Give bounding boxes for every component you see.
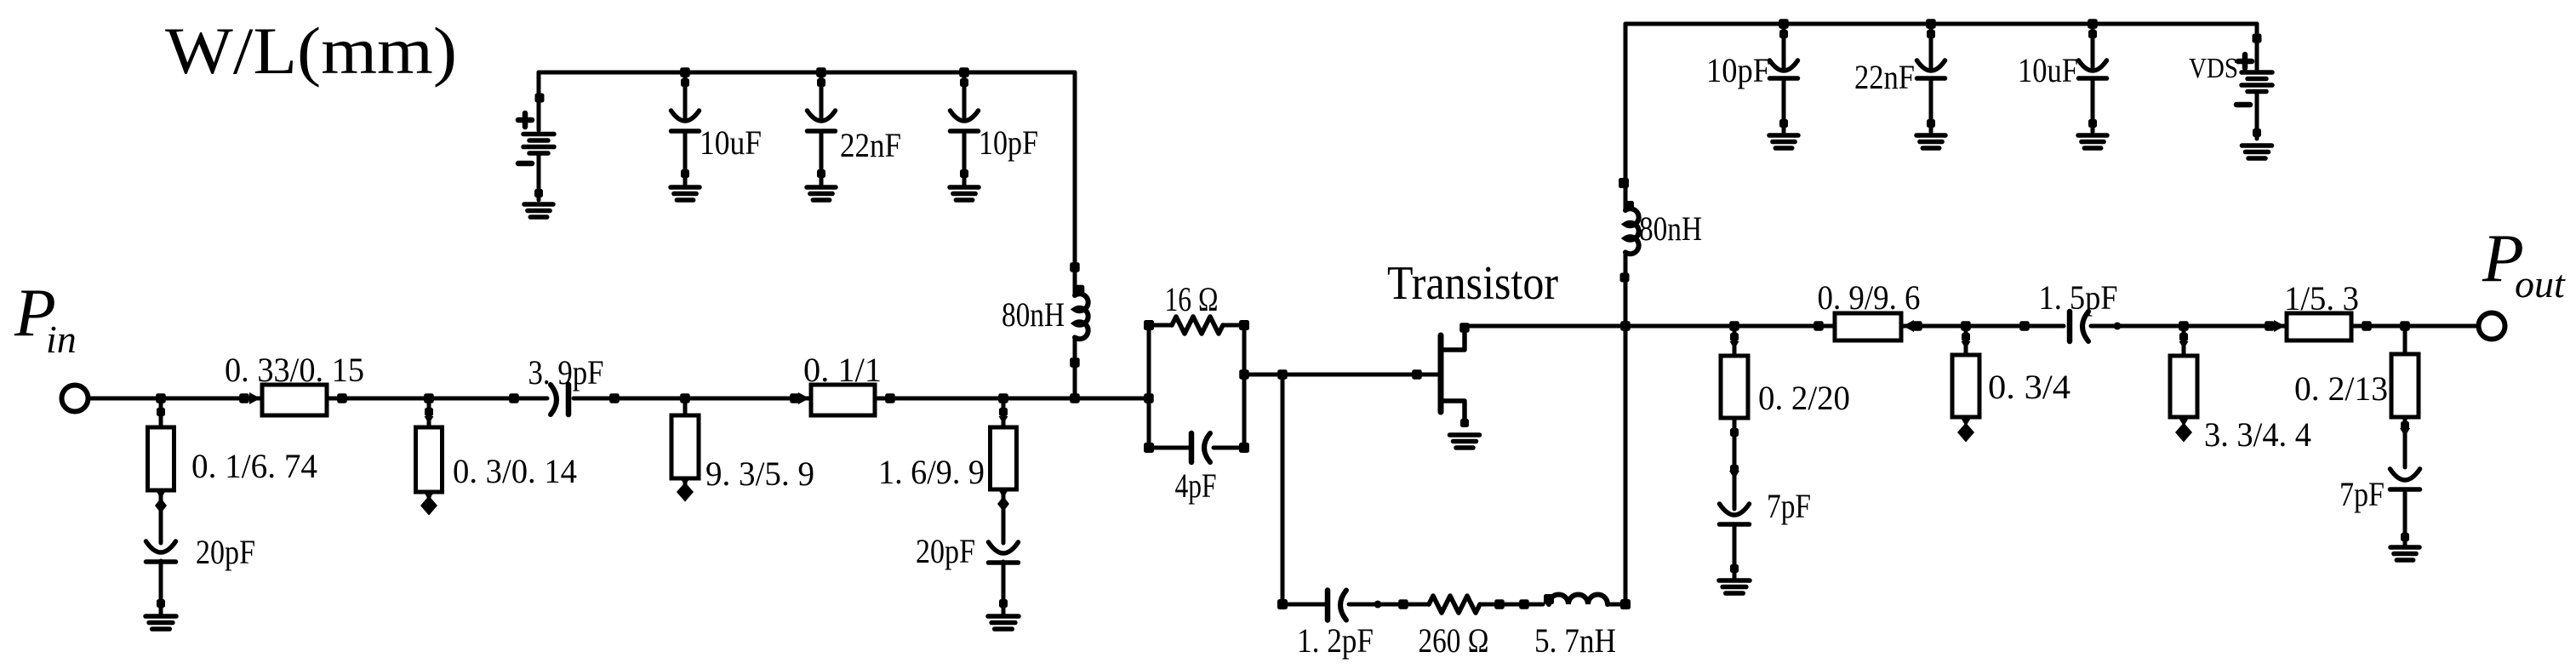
svg-text:5. 7nH: 5. 7nH [1534, 621, 1616, 660]
svg-text:0. 1/1: 0. 1/1 [803, 351, 882, 389]
svg-text:3. 9pF: 3. 9pF [528, 353, 604, 392]
svg-text:4pF: 4pF [1175, 466, 1217, 505]
svg-text:1. 2pF: 1. 2pF [1297, 621, 1374, 660]
svg-text:0. 33/0. 15: 0. 33/0. 15 [225, 351, 364, 389]
svg-text:0. 2/13: 0. 2/13 [2294, 369, 2388, 408]
svg-text:9. 3/5. 9: 9. 3/5. 9 [705, 455, 814, 493]
svg-text:out: out [2515, 262, 2566, 306]
svg-text:3. 3/4. 4: 3. 3/4. 4 [2204, 415, 2311, 454]
svg-text:in: in [46, 317, 77, 361]
svg-text:0. 1/6. 74: 0. 1/6. 74 [191, 447, 317, 485]
svg-text:0. 9/9. 6: 0. 9/9. 6 [1818, 278, 1921, 317]
svg-text:10uF: 10uF [700, 123, 762, 162]
svg-text:1/5. 3: 1/5. 3 [2284, 279, 2359, 317]
svg-text:1. 6/9. 9: 1. 6/9. 9 [878, 453, 985, 491]
svg-text:Transistor: Transistor [1387, 257, 1558, 310]
svg-text:10pF: 10pF [979, 123, 1038, 162]
svg-text:80nH: 80nH [1639, 209, 1702, 248]
svg-text:80nH: 80nH [1002, 295, 1065, 334]
svg-text:10uF: 10uF [2018, 51, 2078, 89]
svg-text:22nF: 22nF [1854, 58, 1915, 96]
svg-text:0. 3/4: 0. 3/4 [1988, 368, 2071, 406]
svg-text:260 Ω: 260 Ω [1419, 621, 1489, 660]
svg-text:1. 5pF: 1. 5pF [2039, 278, 2118, 317]
svg-text:16 Ω: 16 Ω [1165, 280, 1219, 318]
svg-text:7pF: 7pF [1767, 487, 1811, 525]
svg-text:10pF: 10pF [1706, 51, 1770, 89]
svg-text:20pF: 20pF [196, 533, 255, 571]
svg-text:7pF: 7pF [2339, 475, 2385, 513]
svg-text:20pF: 20pF [916, 532, 975, 570]
svg-text:W/L(mm): W/L(mm) [165, 14, 457, 88]
svg-text:0. 2/20: 0. 2/20 [1758, 379, 1850, 417]
svg-text:0. 3/0. 14: 0. 3/0. 14 [453, 452, 577, 490]
svg-text:VDS: VDS [2189, 53, 2238, 84]
svg-text:22nF: 22nF [840, 126, 901, 164]
